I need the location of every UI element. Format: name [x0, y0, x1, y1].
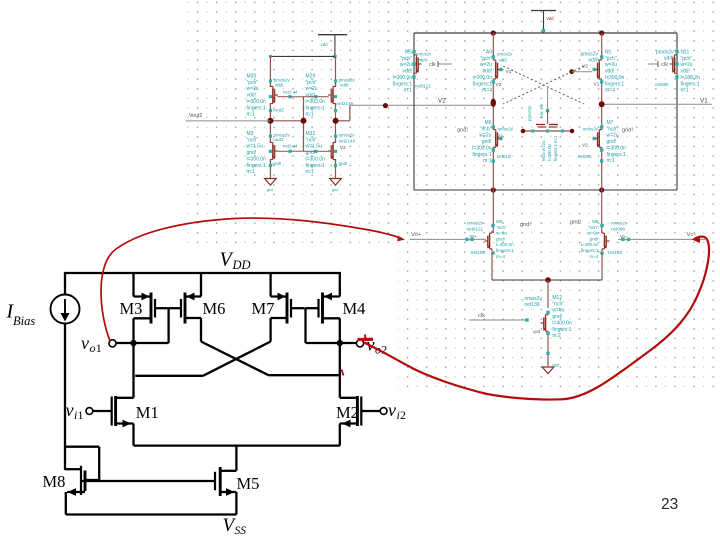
svg-text:gnd: gnd [552, 363, 560, 368]
svg-text:M32: M32 [306, 131, 316, 137]
svg-text:vdd!: vdd! [306, 93, 315, 99]
svg-text:V2: V2 [438, 98, 446, 105]
svg-text:w=1.5u: w=1.5u [306, 144, 322, 150]
svg-text:o: o [90, 341, 96, 355]
svg-text:net0121: net0121 [415, 84, 431, 89]
svg-text:N11: N11 [681, 50, 690, 56]
svg-text:vout2: vout2 [272, 137, 284, 142]
svg-text:M3: M3 [120, 299, 143, 318]
svg-text:m=4: m=4 [482, 88, 492, 94]
svg-text:fingers:1: fingers:1 [306, 163, 325, 169]
svg-text:M4: M4 [343, 299, 366, 318]
svg-text:m:1: m:1 [483, 158, 492, 164]
svg-text:w=2u: w=2u [681, 62, 693, 68]
svg-text:l=400.0n: l=400.0n [496, 242, 514, 247]
svg-text:w=6u: w=6u [552, 308, 564, 314]
svg-text:gnd!: gnd! [272, 161, 281, 166]
svg-text:net136: net136 [524, 302, 540, 308]
svg-text:gnd: gnd [267, 188, 273, 192]
svg-text:"pch": "pch" [306, 80, 318, 86]
svg-text:fingers:1: fingers:1 [473, 81, 492, 87]
svg-text:net0121: net0121 [467, 227, 484, 232]
svg-text:pmos2v: pmos2v [527, 105, 532, 121]
svg-text:vdd!: vdd! [275, 83, 284, 88]
svg-text:"nch": "nch" [306, 137, 318, 143]
svg-text:nmos2v: nmos2v [339, 133, 356, 138]
svg-text:v: v [81, 333, 89, 353]
svg-text:fingers:1: fingers:1 [306, 105, 325, 111]
svg-text:vdd: vdd [547, 16, 555, 21]
svg-text:"pch": "pch" [247, 80, 259, 86]
svg-text:pmos2v: pmos2v [497, 52, 513, 57]
svg-text:Vout2: Vout2 [189, 113, 202, 119]
svg-text:m:1: m:1 [607, 158, 616, 164]
svg-text:fingers:1: fingers:1 [581, 248, 599, 253]
svg-text:"nch": "nch" [607, 126, 619, 132]
svg-text:gnd!: gnd! [570, 220, 581, 226]
svg-text:vdd!: vdd! [589, 58, 598, 64]
svg-text:M9: M9 [496, 219, 503, 224]
svg-text:M6: M6 [485, 120, 492, 126]
svg-text:gnd!: gnd! [339, 161, 348, 166]
svg-text:fingers:1: fingers:1 [605, 81, 624, 87]
svg-text:M3: M3 [247, 131, 254, 137]
svg-text:gnd!: gnd! [482, 139, 492, 145]
svg-text:fingers:1: fingers:1 [393, 81, 412, 87]
svg-text:vdd!: vdd! [483, 69, 492, 75]
svg-text:M10 w=2u: M10 w=2u [541, 140, 546, 161]
svg-text:M7: M7 [252, 299, 275, 318]
svg-text:gnd: gnd [533, 329, 541, 334]
svg-text:Bias: Bias [13, 314, 35, 328]
svg-text:M8: M8 [43, 472, 66, 491]
svg-text:net095: net095 [578, 154, 592, 159]
svg-text:"pch": "pch" [480, 56, 492, 62]
svg-text:gnd!: gnd! [247, 150, 257, 156]
svg-text:l=300.0n: l=300.0n [472, 145, 492, 151]
svg-text:w=9u: w=9u [496, 231, 508, 236]
svg-text:w=2u: w=2u [306, 86, 318, 92]
svg-text:l=300.0n: l=300.0n [473, 75, 493, 81]
svg-text:l=300.0n: l=300.0n [393, 75, 413, 81]
svg-text:M12: M12 [552, 295, 562, 301]
svg-text:m:2: m:2 [552, 333, 561, 339]
svg-text:"pch": "pch" [400, 56, 412, 62]
svg-text:fingers:1: fingers:1 [607, 152, 626, 158]
svg-text:bar. clk: bar. clk [539, 103, 544, 118]
svg-text:net095: net095 [655, 82, 669, 87]
svg-text:Vo+: Vo+ [411, 232, 422, 238]
svg-text:gnd!: gnd! [607, 139, 617, 145]
svg-text:m=4: m=4 [496, 254, 506, 259]
svg-text:gnd!: gnd! [496, 236, 505, 241]
svg-text:w=2u: w=2u [400, 62, 412, 68]
svg-text:vdd!: vdd! [403, 69, 412, 75]
svg-text:vdd!: vdd! [664, 56, 673, 62]
svg-text:DD: DD [232, 258, 251, 272]
svg-text:fingers:1: fingers:1 [681, 81, 700, 87]
svg-text:gnd!: gnd! [590, 236, 599, 241]
svg-text:gnd!: gnd! [520, 222, 531, 228]
svg-text:V1: V1 [506, 69, 512, 75]
svg-text:vout2: vout2 [273, 107, 285, 112]
svg-text:N1: N1 [605, 50, 612, 56]
svg-text:fingers:1: fingers:1 [496, 248, 514, 253]
svg-text:1: 1 [96, 341, 102, 355]
svg-text:l=300.0n: l=300.0n [247, 156, 267, 162]
svg-text:l=300.0n: l=300.0n [607, 145, 627, 151]
svg-text:V2: V2 [496, 82, 502, 88]
svg-text:m=4: m=4 [605, 88, 615, 94]
svg-text:m:1: m:1 [247, 169, 256, 175]
svg-text:m:1: m:1 [681, 88, 690, 94]
svg-text:net106: net106 [471, 250, 485, 255]
svg-text:v: v [388, 400, 396, 420]
svg-text:fingers:1: fingers:1 [247, 105, 266, 111]
svg-text:l=188.2n: l=188.2n [681, 75, 701, 81]
svg-text:l=300.0n: l=300.0n [306, 156, 326, 162]
svg-text:l=300.0n: l=300.0n [547, 143, 552, 161]
svg-text:m=4: m=4 [589, 254, 599, 259]
svg-text:net2 ◂4: net2 ◂4 [283, 144, 298, 149]
svg-text:net096: net096 [611, 227, 625, 232]
svg-text:"nch": "nch" [480, 126, 492, 132]
svg-text:w=2u: w=2u [605, 62, 617, 68]
svg-text:l=400.0n: l=400.0n [581, 242, 599, 247]
svg-text:"nch": "nch" [496, 225, 507, 230]
svg-text:w=2u: w=2u [479, 133, 491, 139]
svg-text:m:1: m:1 [306, 112, 315, 118]
svg-text:fingers:1: fingers:1 [472, 152, 491, 158]
svg-text:w=2u: w=2u [480, 62, 492, 68]
svg-text:M7: M7 [607, 120, 614, 126]
svg-text:nmos2v: nmos2v [583, 127, 599, 132]
svg-text:V1: V1 [700, 98, 708, 105]
svg-text:clk: clk [429, 62, 436, 68]
svg-text:M5: M5 [237, 474, 260, 493]
svg-text:M29: M29 [306, 74, 316, 80]
svg-text:vdd: vdd [321, 42, 329, 47]
svg-text:V1: V1 [594, 82, 600, 88]
svg-text:vdd!: vdd! [340, 83, 349, 88]
svg-text:M2: M2 [336, 403, 359, 422]
svg-text:fingers:1: fingers:1 [247, 163, 266, 169]
svg-text:gnd!: gnd! [457, 128, 468, 134]
svg-text:w=1.5u: w=1.5u [247, 144, 263, 150]
svg-text:v: v [66, 400, 74, 420]
svg-text:clk: clk [478, 313, 485, 319]
svg-text:gnd: gnd [332, 188, 338, 192]
svg-text:"nch": "nch" [247, 137, 259, 143]
svg-text:"pch": "pch" [605, 56, 617, 62]
svg-text:clk: clk [661, 62, 668, 68]
svg-text:M1: M1 [136, 403, 159, 422]
svg-text:M8: M8 [592, 219, 599, 224]
svg-text:2: 2 [400, 408, 406, 422]
svg-text:nmos2v: nmos2v [498, 127, 514, 132]
svg-text:M30: M30 [247, 74, 257, 80]
svg-text:vdd!: vdd! [247, 93, 256, 99]
svg-text:net2144: net2144 [339, 139, 356, 144]
svg-text:M6: M6 [203, 299, 226, 318]
svg-text:nmos2v: nmos2v [611, 221, 628, 226]
svg-text:"nch": "nch" [552, 301, 564, 307]
svg-text:gnd!: gnd! [306, 150, 316, 156]
svg-text:l=400.0n: l=400.0n [552, 320, 572, 326]
svg-text:net103: net103 [608, 250, 622, 255]
svg-text:vdd!: vdd! [418, 58, 426, 63]
svg-text:fingers:1 m:1: fingers:1 m:1 [553, 135, 558, 161]
svg-text:A9: A9 [486, 50, 492, 56]
svg-text:l=300.0n: l=300.0n [247, 99, 267, 105]
svg-text:gnd!: gnd! [622, 128, 633, 134]
svg-text:pmos2v: pmos2v [416, 52, 432, 57]
svg-text:1: 1 [78, 408, 84, 422]
svg-text:w=9u: w=9u [587, 231, 599, 236]
svg-text:m:1: m:1 [306, 169, 315, 175]
svg-text:fingers:1: fingers:1 [552, 327, 571, 333]
svg-text:"nch": "nch" [588, 225, 599, 230]
svg-text:net2 ◂4: net2 ◂4 [283, 90, 298, 95]
svg-text:l=300.0n: l=300.0n [306, 99, 326, 105]
svg-text:w=2u: w=2u [247, 86, 259, 92]
svg-text:m:1: m:1 [404, 88, 413, 94]
svg-text:V2: V2 [582, 143, 588, 148]
svg-text:l=300.0n: l=300.0n [605, 75, 625, 81]
svg-text:m:1: m:1 [247, 112, 256, 118]
svg-text:vdd!: vdd! [681, 69, 690, 75]
svg-text:gnd!: gnd! [552, 314, 562, 320]
svg-text:23: 23 [661, 496, 678, 513]
svg-text:"pch": "pch" [681, 56, 693, 62]
svg-text:V2: V2 [340, 145, 346, 150]
svg-text:vdd!: vdd! [499, 58, 507, 63]
svg-text:w=2u: w=2u [607, 133, 619, 139]
svg-text:nmos2v: nmos2v [467, 221, 484, 226]
svg-text:SS: SS [235, 525, 247, 537]
svg-text:M5: M5 [405, 50, 412, 56]
svg-text:vdd!: vdd! [605, 69, 614, 75]
svg-text:net012!: net012! [497, 154, 512, 159]
